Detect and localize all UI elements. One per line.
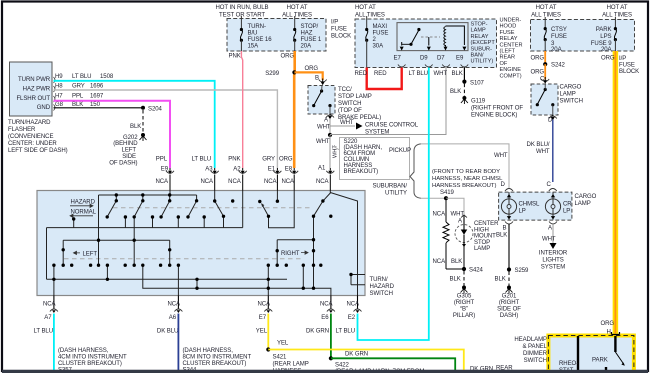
- svg-text:BLOCK: BLOCK: [331, 34, 351, 40]
- pin A2 entry: [242, 191, 244, 228]
- svg-text:CENTER: CENTER: [474, 221, 499, 227]
- D2 pivot drop: [133, 217, 135, 265]
- ground G201: [497, 286, 521, 320]
- svg-text:NCA: NCA: [228, 179, 242, 185]
- svg-text:SUBURBAN/: SUBURBAN/: [372, 184, 407, 190]
- svg-text:HOT AT: HOT AT: [607, 5, 628, 11]
- svg-text:GRY: GRY: [72, 84, 85, 90]
- svg-text:A7: A7: [44, 315, 52, 321]
- fuse STOP/HAZ FUSE 1 20A: [293, 16, 322, 51]
- underhood fuse relay center box: [355, 19, 497, 68]
- svg-text:BLK: BLK: [450, 277, 461, 283]
- wire ORG ctsy fuse to S242: [544, 51, 546, 64]
- pin arrow D into cargo lamp box: [505, 189, 513, 192]
- svg-text:S299: S299: [265, 71, 280, 77]
- svg-text:RELAY: RELAY: [471, 34, 489, 40]
- NCA labels at top pins: [155, 179, 329, 185]
- svg-text:STOP/: STOP/: [301, 24, 319, 30]
- svg-text:HOT AT: HOT AT: [287, 5, 308, 11]
- feed to E2 line: [330, 193, 357, 296]
- hazard feed bus: [99, 194, 197, 196]
- wire BLK relay E9 to S107: [463, 68, 465, 82]
- svg-text:(BEHIND: (BEHIND: [113, 141, 138, 147]
- bottom pin labels: [34, 315, 356, 335]
- H wire inside: [614, 336, 616, 352]
- fuse CTSY FUSE 3 20A: [544, 17, 567, 53]
- svg-text:LIGHTS: LIGHTS: [542, 258, 563, 264]
- svg-text:BLK: BLK: [72, 102, 83, 108]
- svg-text:WHT: WHT: [333, 145, 339, 158]
- svg-text:CENTER: UNDER: CENTER: UNDER: [8, 141, 57, 147]
- svg-text:TURN-: TURN-: [248, 24, 266, 30]
- svg-text:CLUSTER BREAKOUT): CLUSTER BREAKOUT): [58, 361, 122, 367]
- svg-text:DK GRN: DK GRN: [345, 352, 368, 358]
- svg-text:SWITCH: SWITCH: [524, 358, 547, 364]
- bottom pins out of switch (A7 A6 E7 E6 E2): [54, 296, 358, 310]
- svg-text:& PANEL: & PANEL: [522, 344, 547, 350]
- svg-text:MAXI: MAXI: [373, 24, 388, 30]
- svg-text:ORG: ORG: [531, 70, 545, 76]
- svg-text:H8: H8: [55, 84, 63, 90]
- svg-text:RELAY: RELAY: [500, 36, 518, 42]
- svg-text:G119: G119: [471, 99, 486, 105]
- svg-text:BLOCK: BLOCK: [619, 69, 639, 75]
- wire BLK dashed to G202: [142, 110, 144, 133]
- svg-text:REAR: REAR: [500, 55, 516, 61]
- svg-text:SIDE OF: SIDE OF: [497, 307, 521, 313]
- svg-text:PPL: PPL: [72, 94, 84, 100]
- wire WHT S220 to A1: [329, 135, 331, 168]
- wire S419 branch to lamp A: [446, 198, 464, 216]
- svg-text:NCA: NCA: [167, 302, 181, 308]
- svg-text:LP: LP: [563, 209, 570, 215]
- wire WHT suburban run to S419: [421, 197, 446, 199]
- left loop to A7: [46, 228, 48, 280]
- top pin labels: [156, 157, 293, 173]
- svg-text:NCA: NCA: [346, 302, 360, 308]
- contact dots row1: [72, 193, 332, 220]
- svg-text:G305: G305: [457, 294, 472, 300]
- svg-text:NORMAL: NORMAL: [71, 210, 97, 216]
- splice S299: [292, 70, 296, 74]
- svg-text:30A: 30A: [373, 44, 385, 50]
- splice S242: [543, 62, 547, 66]
- ground G305: [453, 286, 475, 320]
- svg-text:SIDE: SIDE: [122, 154, 136, 160]
- svg-text:UTILITY: UTILITY: [385, 191, 407, 197]
- svg-text:CHMSL: CHMSL: [519, 202, 540, 208]
- svg-text:A1: A1: [318, 166, 326, 172]
- bulb CHMSL LP: [501, 192, 540, 219]
- svg-text:LT BLU: LT BLU: [34, 329, 53, 335]
- S220 harness label box: [335, 138, 410, 180]
- svg-text:H7: H7: [55, 94, 63, 100]
- svg-text:YEL: YEL: [256, 329, 268, 335]
- svg-text:(CONVENIENCE: (CONVENIENCE: [8, 134, 53, 140]
- svg-text:WHT: WHT: [434, 71, 448, 77]
- svg-text:E1: E1: [268, 166, 276, 172]
- pin B below CHMSL LP: [505, 222, 513, 225]
- wire LT BLU relay D9 down-around to switch E2: [358, 68, 429, 341]
- svg-text:20A: 20A: [301, 44, 313, 50]
- svg-text:E8: E8: [285, 166, 293, 172]
- svg-text:UNDER-: UNDER-: [500, 18, 522, 24]
- svg-text:LT BLU: LT BLU: [336, 329, 355, 335]
- arm E1 assembly: [262, 204, 269, 217]
- A6 column: [177, 265, 179, 295]
- svg-text:CRUISE CONTROL: CRUISE CONTROL: [365, 123, 419, 129]
- svg-text:WHT: WHT: [317, 125, 331, 131]
- svg-text:TCC/: TCC/: [338, 87, 352, 93]
- svg-text:RHEO-: RHEO-: [559, 361, 578, 367]
- svg-text:HARNESS, NEAR CHMSL: HARNESS, NEAR CHMSL: [432, 176, 503, 182]
- svg-text:ORG: ORG: [601, 56, 615, 62]
- svg-text:D9: D9: [420, 56, 428, 62]
- wire WHT A to S220: [329, 119, 331, 136]
- NCA resistor path S419 to S424: [433, 198, 465, 269]
- svg-text:YEL: YEL: [277, 341, 289, 347]
- svg-text:CTSY: CTSY: [551, 27, 567, 33]
- svg-text:LT BLU: LT BLU: [72, 74, 91, 80]
- svg-text:FUSE: FUSE: [373, 31, 389, 37]
- pin A3 entry + arm: [215, 191, 224, 217]
- svg-text:CLUSTER BREAKOUT): CLUSTER BREAKOUT): [183, 361, 247, 367]
- wire WHT pickup run to CHMSL D: [421, 144, 509, 188]
- svg-text:STOP-: STOP-: [471, 22, 488, 28]
- wire ORG park fuse down right side (yellow highlighted): [613, 51, 619, 335]
- svg-text:I/P: I/P: [331, 20, 338, 26]
- svg-text:“B”: “B”: [460, 307, 468, 313]
- svg-text:ALL TIMES: ALL TIMES: [355, 13, 385, 19]
- svg-text:E9: E9: [456, 56, 464, 62]
- svg-text:ENGINE: ENGINE: [500, 67, 522, 73]
- svg-text:SWITCH: SWITCH: [370, 291, 393, 297]
- svg-text:RED: RED: [355, 71, 368, 77]
- svg-text:SWITCH: SWITCH: [560, 99, 583, 105]
- svg-text:E7: E7: [259, 315, 267, 321]
- svg-text:(DASH HARNESS,: (DASH HARNESS,: [58, 348, 109, 354]
- g6 stat drop: [302, 265, 304, 288]
- svg-text:G8: G8: [55, 102, 64, 108]
- top pin connectors into switch (E9 A3 A2 E1 E8 A1): [166, 171, 334, 174]
- contact dots row2/3: [52, 238, 352, 290]
- svg-text:15A: 15A: [248, 44, 260, 50]
- svg-text:A6: A6: [169, 315, 177, 321]
- wire DK BLU/WHT cargo switch D to CR LP C: [552, 120, 554, 183]
- svg-text:FUSE: FUSE: [551, 34, 567, 40]
- svg-text:DK BLU/: DK BLU/: [527, 142, 550, 148]
- svg-text:FUSE 1: FUSE 1: [301, 37, 322, 43]
- maxi fuse 2 30A: [365, 16, 388, 68]
- svg-text:D: D: [501, 182, 506, 188]
- svg-text:4CM INTO INSTRUMENT: 4CM INTO INSTRUMENT: [58, 355, 127, 361]
- svg-text:FUSE 16: FUSE 16: [248, 37, 273, 43]
- bulb CR LP: [545, 192, 572, 219]
- wire WHT S220 to relay D7: [330, 68, 446, 135]
- svg-text:PNK: PNK: [228, 157, 240, 163]
- svg-text:NCA: NCA: [433, 212, 447, 218]
- wire BLK 150 flasher to S204: [54, 107, 144, 109]
- pin arrow C into cargo lamp box: [549, 189, 557, 192]
- stat drop right of g2: [106, 265, 108, 279]
- bus1 drop to bus2: [98, 195, 100, 240]
- cargo lamp dashed box: [499, 192, 572, 220]
- dashed detent line upper: [113, 207, 313, 209]
- fuse PARK LPS FUSE 9 20A: [591, 17, 617, 53]
- svg-text:NCA: NCA: [320, 302, 334, 308]
- wire GRY 1696 flasher to E1: [54, 90, 278, 168]
- svg-text:HAZARD: HAZARD: [370, 284, 395, 290]
- pin/wire labels H9 H8 H7 G8: [55, 74, 114, 108]
- svg-text:DASH): DASH): [500, 313, 518, 319]
- wire RED maxi fuse to relay E7: [367, 68, 402, 90]
- svg-text:LP: LP: [519, 209, 526, 215]
- svg-text:(TOP OF: (TOP OF: [338, 108, 362, 114]
- rheostat divider: [577, 336, 579, 373]
- svg-text:CARGO: CARGO: [560, 85, 582, 91]
- svg-text:BLK: BLK: [452, 71, 463, 77]
- svg-text:ALL TIMES: ALL TIMES: [282, 13, 312, 19]
- svg-text:FLSHR OUT: FLSHR OUT: [16, 96, 50, 102]
- svg-text:DK BLU: DK BLU: [157, 329, 178, 335]
- svg-text:(LEFT: (LEFT: [500, 49, 516, 55]
- svg-text:S419: S419: [440, 190, 455, 196]
- svg-text:E9: E9: [161, 166, 169, 172]
- svg-text:PPL: PPL: [156, 157, 168, 163]
- bottom bus to E6: [143, 265, 331, 295]
- svg-text:DIMMER: DIMMER: [523, 351, 548, 357]
- svg-text:WHT: WHT: [340, 120, 354, 126]
- svg-text:RED: RED: [374, 71, 387, 77]
- relay caption STOP-LAMP RELAY: [471, 22, 496, 65]
- wire LT BLU E2 stub (joins loop): [357, 314, 359, 320]
- svg-text:(RIGHT FRONT OF: (RIGHT FRONT OF: [471, 106, 523, 112]
- svg-text:INTERIOR: INTERIOR: [539, 251, 568, 257]
- wire WHT branch to cruise control: [330, 125, 355, 127]
- label LEFT: [74, 251, 98, 257]
- svg-text:FUSE: FUSE: [500, 30, 515, 36]
- svg-text:S242: S242: [551, 63, 566, 69]
- svg-text:NCA: NCA: [200, 179, 214, 185]
- pin E1 entry: [276, 191, 278, 202]
- svg-text:GRY: GRY: [262, 157, 275, 163]
- g2 arm: [98, 240, 100, 265]
- svg-text:WHT: WHT: [494, 153, 508, 159]
- wire ORG S242 to cargo switch C: [544, 64, 546, 79]
- jumper: [196, 279, 198, 288]
- stationary contact rail: [47, 227, 243, 229]
- svg-text:ENGINE BLOCK): ENGINE BLOCK): [471, 113, 517, 119]
- turn/hazard switch box: [37, 191, 365, 296]
- wire LT BLU 1508 (cyan) flasher to A3: [54, 81, 215, 168]
- svg-text:PARK: PARK: [596, 27, 612, 33]
- svg-text:(RIGHT: (RIGHT: [454, 300, 475, 306]
- svg-text:H9: H9: [55, 74, 63, 80]
- svg-text:GND: GND: [37, 105, 51, 111]
- svg-text:BLK: BLK: [495, 277, 506, 283]
- svg-text:B/U: B/U: [248, 31, 258, 37]
- svg-text:A3: A3: [205, 166, 213, 172]
- svg-text:SUBUR-: SUBUR-: [471, 46, 493, 52]
- low common line: [47, 278, 288, 280]
- svg-text:G202: G202: [123, 135, 138, 141]
- pin arrow C into cargo switch: [541, 79, 549, 82]
- svg-text:D7: D7: [437, 56, 445, 62]
- svg-text:LAMP: LAMP: [474, 246, 490, 252]
- svg-text:(EXCEPT: (EXCEPT: [471, 40, 496, 46]
- wire BLK CHMSL to S259: [508, 224, 510, 270]
- svg-text:S422: S422: [335, 362, 350, 368]
- svg-text:B: B: [315, 76, 319, 82]
- headlamp & panel dimmer switch box (yellow highlighted): [548, 332, 634, 373]
- pin E9 entry: [169, 191, 171, 196]
- svg-text:STOP: STOP: [474, 240, 490, 246]
- svg-text:NCA: NCA: [257, 302, 271, 308]
- stop-lamp relay inner box: [397, 23, 468, 51]
- pin A out of TCC switch: [326, 115, 334, 118]
- svg-text:NCA: NCA: [316, 179, 330, 185]
- svg-text:COMPT): COMPT): [500, 73, 522, 79]
- svg-text:LAMP: LAMP: [575, 201, 591, 207]
- svg-text:S424: S424: [469, 268, 484, 274]
- splice S421: [266, 347, 270, 351]
- splice S107: [462, 80, 466, 84]
- svg-text:G201: G201: [502, 294, 517, 300]
- svg-text:HOT IN RUN, BULB: HOT IN RUN, BULB: [215, 5, 268, 11]
- A7 column: [53, 265, 55, 295]
- splice S259: [507, 267, 511, 271]
- svg-text:S259: S259: [515, 268, 530, 274]
- svg-text:LT BLU: LT BLU: [192, 157, 211, 163]
- svg-text:LPS: LPS: [600, 34, 611, 40]
- splice S204: [141, 106, 145, 110]
- svg-text:WHT: WHT: [316, 139, 330, 145]
- arrow to interior lights system: [552, 224, 554, 243]
- svg-text:CR: CR: [563, 202, 572, 208]
- turn/hazard flasher box: [10, 62, 56, 116]
- svg-text:FLASHER: FLASHER: [8, 127, 36, 133]
- svg-text:C: C: [547, 182, 552, 188]
- svg-text:B: B: [503, 225, 507, 231]
- svg-text:WHT: WHT: [542, 237, 556, 243]
- svg-text:NCA: NCA: [43, 302, 57, 308]
- svg-text:LEFT SIDE OF DASH): LEFT SIDE OF DASH): [8, 148, 68, 154]
- svg-text:(FRONT TO REAR BODY: (FRONT TO REAR BODY: [432, 169, 500, 175]
- svg-text:SWITCH: SWITCH: [338, 101, 361, 107]
- svg-text:ALL TIMES: ALL TIMES: [602, 13, 632, 19]
- svg-text:WHT: WHT: [536, 149, 550, 155]
- svg-text:PILLAR): PILLAR): [453, 313, 475, 319]
- svg-text:PICKUP: PICKUP: [389, 148, 411, 154]
- TCC/stop lamp switch: [308, 86, 381, 122]
- pin D out of cargo switch: [549, 116, 557, 119]
- svg-text:150: 150: [90, 102, 101, 108]
- right low bus: [277, 240, 313, 266]
- svg-text:1508: 1508: [100, 74, 114, 80]
- svg-text:HOT AT: HOT AT: [536, 5, 557, 11]
- pin arrow B into TCC switch: [319, 80, 327, 83]
- svg-text:I/P: I/P: [619, 56, 626, 62]
- wire DK BLU A6 down: [177, 314, 179, 371]
- svg-text:S421: S421: [273, 355, 288, 361]
- svg-text:HARNESS BREAKOUT): HARNESS BREAKOUT): [432, 183, 497, 189]
- wire PPL 1697 flasher to E9: [54, 101, 171, 168]
- harness routing brace: [410, 144, 421, 198]
- cargo lamp switch: [531, 84, 583, 115]
- dashed detent line lower: [64, 258, 302, 260]
- svg-text:1697: 1697: [90, 94, 104, 100]
- svg-text:TURN/: TURN/: [370, 277, 388, 283]
- svg-text:1696: 1696: [90, 84, 104, 90]
- svg-text:UTILITY): UTILITY): [471, 59, 494, 65]
- wire DK GRN S422 right and down: [331, 358, 455, 370]
- svg-text:20A: 20A: [601, 47, 613, 53]
- svg-text:BAN/: BAN/: [471, 53, 485, 59]
- ground G119: [461, 96, 523, 119]
- splice S424: [462, 267, 466, 271]
- svg-text:ORG: ORG: [279, 157, 293, 163]
- pin A below CR LP: [549, 222, 557, 225]
- svg-text:HAZ: HAZ: [301, 31, 313, 37]
- svg-text:ALL TIMES: ALL TIMES: [531, 13, 561, 19]
- right I/P fuse block box: [531, 20, 635, 52]
- svg-text:E7: E7: [394, 56, 402, 62]
- svg-text:E6: E6: [321, 315, 329, 321]
- svg-text:PNK: PNK: [229, 54, 241, 60]
- svg-text:HIGH: HIGH: [474, 227, 489, 233]
- svg-text:TURN PWR: TURN PWR: [18, 77, 51, 83]
- svg-text:MOUNT: MOUNT: [474, 234, 496, 240]
- svg-text:BLK: BLK: [496, 232, 507, 238]
- svg-text:NCA: NCA: [155, 179, 169, 185]
- svg-text:TURN/HAZARD: TURN/HAZARD: [8, 120, 51, 126]
- svg-text:20A: 20A: [551, 47, 563, 53]
- svg-text:LEFT: LEFT: [83, 252, 98, 258]
- svg-text:(RIGHT: (RIGHT: [499, 300, 520, 306]
- label RIGHT: [281, 251, 308, 257]
- svg-text:BLK: BLK: [451, 259, 462, 265]
- wire BLK dashed to G119: [463, 84, 465, 97]
- pin A1 entry + arm: [314, 191, 331, 217]
- svg-text:BREAKOUT): BREAKOUT): [344, 169, 379, 175]
- svg-text:HAZARD: HAZARD: [71, 200, 96, 206]
- splice S422: [329, 356, 333, 360]
- svg-text:CENTER: CENTER: [500, 42, 523, 48]
- svg-text:ORG: ORG: [305, 66, 319, 72]
- wire BLK dashed to G305: [463, 271, 465, 286]
- bottom frame bar: [2, 370, 648, 373]
- svg-text:8CM INTO INSTRUMENT: 8CM INTO INSTRUMENT: [183, 355, 252, 361]
- svg-text:HAZ PWR: HAZ PWR: [23, 87, 51, 93]
- pin E8 entry + route to pivot: [269, 191, 295, 228]
- svg-text:BLK: BLK: [450, 89, 461, 95]
- left low bus: [63, 239, 170, 241]
- svg-text:NCA: NCA: [433, 259, 447, 265]
- svg-text:S107: S107: [470, 81, 485, 87]
- svg-text:ORG: ORG: [601, 321, 615, 327]
- svg-text:E2: E2: [348, 315, 356, 321]
- wire BLK dashed to G201: [508, 272, 510, 287]
- svg-text:A2: A2: [233, 166, 241, 172]
- NCA labels at bottom pins: [43, 302, 360, 308]
- right edge stubs: [351, 275, 365, 285]
- svg-text:RIGHT: RIGHT: [281, 251, 300, 257]
- wire YEL E7 to S421: [267, 314, 269, 350]
- svg-text:LEFT: LEFT: [122, 148, 137, 154]
- svg-text:HOOD: HOOD: [500, 24, 517, 30]
- pin arcs at box bottom: [398, 65, 406, 68]
- splice S419: [444, 196, 448, 200]
